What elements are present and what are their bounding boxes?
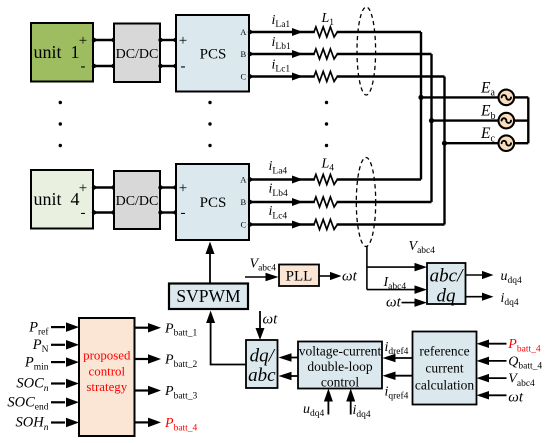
wire DC/DC4 to PCS negative (158, 210, 177, 214)
wire unit4 to DC/DC negative (92, 210, 116, 214)
wire Qbatt_4 into refcalc (477, 357, 507, 366)
svg-text:strategy: strategy (86, 380, 127, 394)
svg-text:dq: dq (437, 286, 457, 307)
PCS converter 1 (176, 15, 249, 92)
svg-text:DC/DC: DC/DC (116, 47, 159, 62)
svg-text:proposed: proposed (83, 349, 131, 363)
wire PLL omega-t output (319, 272, 342, 280)
inductor L4 phase C (314, 220, 337, 230)
coupling ellipse unit 4 (356, 158, 375, 247)
svg-text:control: control (89, 365, 126, 379)
wire bus to source Ea (421, 96, 499, 98)
continuation dots units (59, 101, 62, 147)
wire Pbatt_4 into refcalc (477, 339, 507, 348)
wire dq/abc to SVPWM (206, 311, 246, 365)
continuation dots PCS (208, 101, 211, 147)
wire DC/DC4 to PCS positive (158, 185, 177, 189)
svg-text:C: C (240, 71, 246, 81)
svg-text:B: B (240, 197, 246, 207)
wire source Eb to neutral (514, 119, 528, 121)
wire DC/DC1 to PCS positive (158, 38, 177, 42)
transform block dq/abc (246, 340, 278, 388)
svg-text:-: - (181, 59, 186, 75)
svg-text:-: - (81, 59, 86, 75)
junction dot phase B (429, 118, 434, 123)
wire P_batt_2 output (135, 354, 162, 364)
grid neutral bus (527, 97, 529, 143)
source Ec (499, 135, 515, 151)
wire bus to source Ec (445, 142, 499, 144)
arrow current i_Lc1 direction (292, 73, 303, 81)
wire I_abc4 into abc/dq (367, 285, 427, 294)
DC/DC converter 4 (114, 171, 160, 229)
arrow current i_Lc4 direction (292, 221, 303, 229)
arrow current i_La4 direction (292, 176, 303, 184)
svg-text:abc: abc (248, 365, 276, 386)
svg-text:unit 1: unit 1 (33, 42, 79, 62)
wire bus to source Eb (432, 119, 499, 121)
svg-text:reference: reference (419, 344, 469, 359)
PCS converter 4 (176, 164, 249, 240)
svg-text:dq/: dq/ (250, 346, 276, 367)
svg-text:ωt: ωt (263, 312, 279, 328)
wire P_batt_3 output (135, 386, 162, 396)
wire PN into control strategy (51, 340, 79, 350)
wire Pref into control strategy (51, 322, 79, 332)
bus vertical phase C (443, 77, 445, 225)
bus vertical phase B (430, 54, 432, 202)
inductor L4 phase A (314, 175, 337, 185)
wire SVPWM to PCS4 (206, 242, 215, 284)
wire source Ea to neutral (514, 96, 528, 98)
wire PCS1 phase A output (248, 30, 421, 34)
battery unit 4 box (31, 170, 93, 229)
svg-text:A: A (240, 174, 247, 184)
svg-text:-: - (181, 205, 186, 221)
wire omega-t into abc/dq (402, 298, 428, 307)
svg-text:B: B (240, 49, 246, 59)
wire double-loop to dq/abc upper (279, 353, 299, 362)
svg-text:double-loop: double-loop (307, 359, 372, 374)
sense tap vertical wire (366, 246, 368, 290)
source Ea (499, 90, 515, 106)
svg-text:+: + (79, 181, 87, 197)
wire i_qref4 refcalc to double-loop (383, 371, 413, 380)
wire PCS4 phase A output (248, 177, 421, 181)
svg-text:ωt: ωt (386, 295, 402, 311)
wire P_batt_1 output (135, 323, 162, 333)
wire PCS4 phase C output (248, 222, 445, 226)
coupling ellipse unit 1 (357, 7, 376, 95)
svg-text:C: C (240, 219, 246, 229)
wire Vabc4 into refcalc (477, 374, 507, 383)
source Eb (499, 113, 515, 129)
wire SOHn into control strategy (51, 418, 79, 428)
svg-text:+: + (179, 33, 187, 49)
PLL block (279, 265, 319, 287)
svg-text:+: + (179, 181, 187, 197)
inductor L1 phase B (314, 49, 337, 59)
wire source Ec to neutral (514, 142, 528, 144)
wire i_dq4 into double-loop (346, 389, 355, 415)
arrow current i_Lb1 direction (292, 50, 303, 58)
wire SOCend into control strategy (51, 398, 79, 408)
wire V_abc4 into PLL (245, 273, 279, 282)
svg-text:unit 4: unit 4 (33, 189, 79, 209)
svg-text:+: + (79, 33, 87, 49)
inductor L1 phase A (314, 27, 337, 37)
svg-text:voltage-current: voltage-current (299, 344, 382, 359)
bus vertical phase A (420, 32, 422, 180)
junction dot phase C (442, 141, 447, 146)
wire PCS1 phase C output (248, 74, 445, 78)
wire DC/DC1 to PCS negative (158, 64, 177, 68)
wire Pmin into control strategy (51, 357, 79, 367)
reference current calculation block (413, 332, 477, 405)
battery unit 1 box (31, 23, 93, 82)
svg-text:ωt: ωt (508, 389, 524, 405)
wire i_dq4 output (466, 293, 494, 301)
svg-text:control: control (321, 375, 359, 390)
arrow current i_Lb4 direction (292, 198, 303, 206)
svg-text:A: A (240, 27, 247, 37)
svg-text:PCS: PCS (200, 46, 227, 62)
wire u_dq4 output (466, 271, 494, 279)
wire double-loop to dq/abc lower (279, 372, 299, 381)
DC/DC converter 1 (114, 24, 160, 83)
inductor L4 phase B (314, 197, 337, 207)
SVPWM block (169, 284, 248, 310)
wire omega-t into dq/abc (256, 311, 265, 340)
wire unit1 to DC/DC positive (92, 38, 116, 42)
svg-text:SVPWM: SVPWM (176, 286, 241, 306)
wire unit4 to DC/DC positive (92, 185, 116, 189)
svg-text:ωt: ωt (342, 269, 358, 285)
wire SOCn into control strategy (51, 379, 79, 389)
voltage-current double-loop control block (298, 342, 382, 390)
svg-text:-: - (81, 205, 86, 221)
proposed control strategy block (79, 318, 135, 436)
wire i_dref4 refcalc to double-loop (383, 354, 413, 363)
wire PCS4 phase B output (248, 200, 432, 204)
svg-text:PLL: PLL (286, 269, 313, 285)
continuation dots lines (325, 101, 328, 147)
wire V_abc4 into abc/dq (367, 263, 427, 272)
wire omega-t into refcalc (477, 391, 507, 400)
svg-text:DC/DC: DC/DC (116, 194, 159, 209)
wire unit1 to DC/DC negative (92, 64, 116, 68)
wire PCS1 phase B output (248, 52, 432, 56)
svg-text:calculation: calculation (415, 378, 474, 393)
wire P_batt_4 output (135, 418, 162, 428)
junction dot phase A (418, 95, 423, 100)
wire u_dq4 into double-loop (324, 389, 333, 415)
arrow current i_La1 direction (292, 28, 303, 36)
svg-text:PCS: PCS (200, 195, 227, 211)
inductor L1 phase C (314, 72, 337, 82)
svg-text:current: current (425, 361, 463, 376)
transform block abc/dq (427, 263, 466, 307)
svg-text:abc/: abc/ (430, 266, 464, 287)
